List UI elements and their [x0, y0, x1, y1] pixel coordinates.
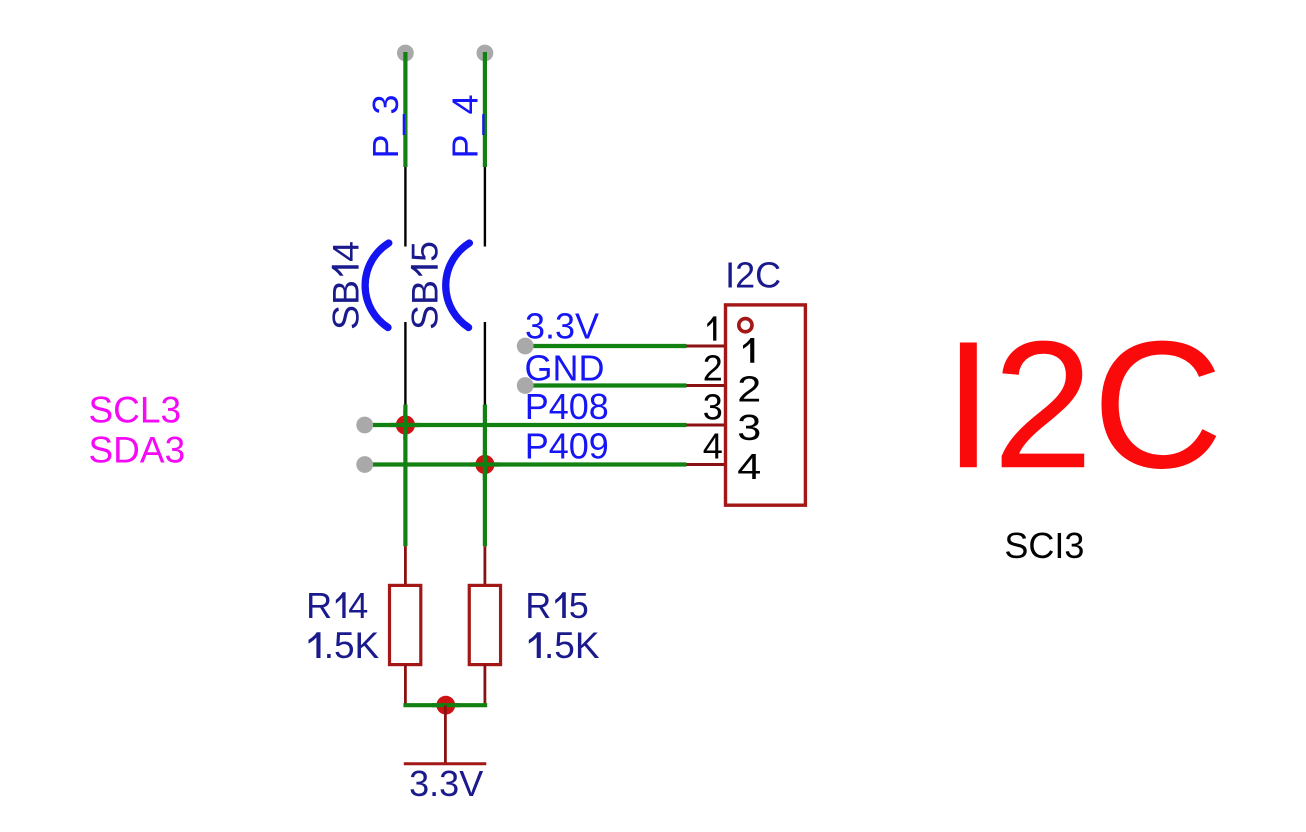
- wire SCL3 over junction vertical: [403, 410, 407, 440]
- svg-text:4: 4: [737, 446, 761, 487]
- connector pin 1 stub: [687, 345, 726, 348]
- pin number 1 (outside): [707, 316, 716, 340]
- wire SDA3 vertical green lower segment: [483, 405, 487, 547]
- pin P_3 top terminal dot: [397, 45, 414, 62]
- resistor R15 body: [469, 585, 500, 664]
- svg-text:I2C: I2C: [725, 255, 781, 296]
- svg-text:3.3V: 3.3V: [525, 306, 599, 347]
- svg-text:SCI3: SCI3: [1004, 525, 1084, 566]
- pin line P_4 black upper segment: [484, 167, 486, 247]
- power stem 3.3V: [444, 705, 447, 764]
- svg-text:SCL3: SCL3: [89, 390, 182, 431]
- wire P408 over junction horizontal: [390, 423, 420, 427]
- svg-text:P_3: P_3: [365, 94, 406, 158]
- svg-text:3: 3: [737, 407, 761, 448]
- connector J? body: [726, 305, 806, 505]
- solder bridge SB15 arc: [446, 243, 470, 328]
- terminal dot wire GND: [517, 377, 534, 394]
- wire P409/SDA3 horizontal: [365, 462, 687, 466]
- connector pin-1 indicator circle: [739, 319, 752, 332]
- svg-text:5: 5: [404, 241, 446, 262]
- svg-text:SDA3: SDA3: [89, 430, 186, 471]
- resistor R15 lead bottom: [483, 665, 486, 706]
- wire SCL3 vertical green upper segment: [403, 52, 407, 167]
- solder bridge SB14 arc: [365, 243, 389, 328]
- resistor R14 lead bottom: [404, 665, 407, 706]
- resistor R14 body: [390, 585, 421, 664]
- wire P409 over junction horizontal: [470, 462, 500, 466]
- value 1.5K of R15: [529, 625, 600, 666]
- label SB14 (rotated): [325, 241, 367, 330]
- svg-text:P_4: P_4: [445, 94, 486, 158]
- wire 3.3V horizontal: [525, 344, 686, 348]
- svg-text:2: 2: [703, 348, 723, 389]
- wire SDA3 vertical green upper segment: [483, 52, 487, 167]
- value 1.5K of R14: [309, 625, 380, 666]
- svg-text:SB: SB: [404, 280, 446, 330]
- svg-text:5: 5: [569, 585, 589, 626]
- svg-text:R: R: [306, 585, 332, 626]
- wire bottom rail over junction: [432, 703, 460, 707]
- junction SDA3/P409: [475, 455, 494, 474]
- connector pin 4 stub: [687, 463, 726, 466]
- svg-text:P409: P409: [525, 426, 609, 467]
- svg-text:R: R: [525, 585, 551, 626]
- svg-text:2: 2: [737, 368, 761, 409]
- terminal dot wire P409: [356, 456, 373, 473]
- wire SDA3 over junction vertical: [483, 450, 487, 480]
- svg-text:4: 4: [348, 585, 368, 626]
- svg-text:3: 3: [703, 387, 723, 428]
- svg-text:4: 4: [325, 241, 367, 262]
- label R14: [306, 585, 368, 626]
- svg-text:3.3V: 3.3V: [409, 763, 483, 804]
- terminal dot wire 3.3V: [517, 338, 534, 355]
- label R15: [525, 585, 589, 626]
- svg-text:4: 4: [703, 426, 723, 467]
- wire bottom horizontal green: [403, 703, 487, 707]
- pin P_4 top terminal dot: [477, 45, 494, 62]
- svg-text:P408: P408: [525, 386, 609, 427]
- pin line P_4 black lower segment: [484, 322, 486, 405]
- svg-text:I2C: I2C: [943, 304, 1222, 506]
- label SB15 (rotated): [404, 241, 446, 330]
- svg-text:.5K: .5K: [324, 625, 380, 666]
- power rail bar 3.3V: [404, 762, 487, 765]
- connector pin 2 stub: [687, 384, 726, 387]
- wire GND horizontal: [525, 383, 686, 387]
- resistor R15 lead top: [483, 546, 486, 585]
- terminal dot wire P408: [356, 417, 373, 434]
- svg-text:SB: SB: [325, 280, 367, 330]
- pin line P_3 black upper segment: [404, 167, 406, 247]
- svg-text:GND: GND: [525, 348, 605, 389]
- junction bottom rail: [436, 696, 455, 715]
- pin line P_3 black lower segment: [404, 322, 406, 405]
- svg-text:.5K: .5K: [544, 625, 600, 666]
- pin number 1 (inside): [743, 338, 754, 363]
- wire P408/SCL3 horizontal: [365, 423, 687, 427]
- junction SCL3/P408: [396, 415, 415, 434]
- wire SCL3 vertical green lower segment: [403, 405, 407, 547]
- connector pin 3 stub: [687, 424, 726, 427]
- resistor R14 lead top: [404, 546, 407, 585]
